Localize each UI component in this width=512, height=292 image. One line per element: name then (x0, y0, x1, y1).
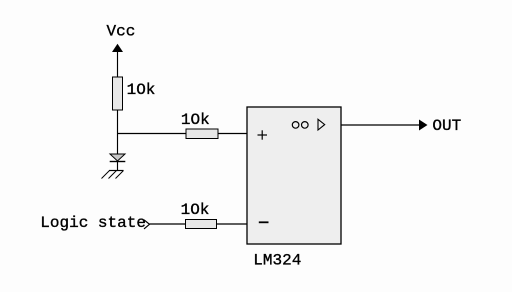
svg-text:LM324: LM324 (253, 252, 301, 270)
svg-text:Vcc: Vcc (107, 22, 136, 40)
svg-text:1Ok: 1Ok (181, 201, 210, 219)
svg-text:Logic state: Logic state (40, 214, 146, 232)
svg-text:OUT: OUT (432, 117, 461, 135)
svg-text:1Ok: 1Ok (181, 111, 210, 129)
svg-text:1Ok: 1Ok (127, 81, 156, 99)
